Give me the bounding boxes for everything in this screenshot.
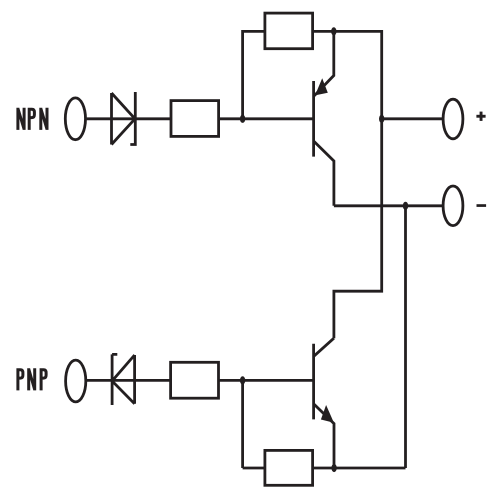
diode D1 (zener, NPN input) (112, 92, 136, 145)
resistor R3 (PNP input) (171, 362, 219, 398)
diode D2 (zener, PNP input) (112, 354, 135, 405)
wire node B down to bottom rail (241, 380, 244, 468)
resistor R4 (bottom feedback) (265, 450, 313, 485)
resistor R1 (NPN input) (171, 101, 219, 137)
terminal PNP input (66, 360, 86, 402)
label PNP (18, 368, 23, 390)
terminal NPN input (65, 98, 85, 140)
arrow Q1 emitter (PNP, points to base) (315, 78, 328, 95)
wire minus rail (334, 204, 442, 207)
junction bottom rail / Q2 emitter (331, 464, 336, 472)
transistor Q1 base bar (312, 81, 315, 157)
label NPN (18, 108, 24, 130)
wire NPN input to resistor (87, 117, 172, 120)
resistor R2 (top feedback) (265, 13, 313, 49)
junction node B (PNP input) (240, 376, 245, 384)
wire minus node down right side (404, 206, 407, 468)
terminal plus output (443, 99, 463, 139)
junction top rail / Q1 emitter (331, 27, 336, 35)
wire R3 to base of Q2 (219, 379, 314, 382)
transistor Q2 emitter (314, 404, 334, 468)
wire emitter Q1 to top rail (314, 31, 334, 95)
wire PNP input to resistor (87, 379, 171, 382)
label minus sign (477, 204, 487, 207)
transistor Q2 base bar (312, 344, 315, 420)
junction node A (NPN input) (240, 115, 245, 123)
transistor Q1 collector (314, 141, 334, 206)
wire R1 to base of Q1 (219, 117, 314, 120)
label plus sign (476, 115, 485, 118)
terminal minus output (443, 186, 463, 226)
wire plus rail (382, 117, 442, 120)
wire top rail right and down to collector step (313, 31, 382, 338)
wire bottom rail (243, 467, 406, 470)
transistor Q2 collector (314, 338, 334, 356)
arrow Q2 emitter (NPN, points out) (321, 405, 334, 423)
junction plus rail (379, 115, 384, 123)
junction minus rail (403, 202, 408, 210)
wire node A up to top rail (243, 31, 265, 118)
